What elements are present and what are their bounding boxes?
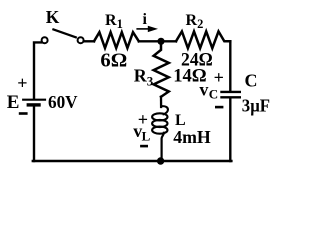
svg-text:+: +: [17, 73, 27, 93]
wire switch to R1: [84, 40, 94, 42]
svg-text:E: E: [7, 92, 20, 113]
svg-text:R2: R2: [186, 12, 204, 31]
wire left rail bottom: [33, 107, 35, 161]
svg-text:3μF: 3μF: [242, 96, 270, 116]
svg-text:6Ω: 6Ω: [100, 50, 127, 71]
switch K left contact: [42, 37, 48, 43]
wire right rail top: [229, 41, 231, 91]
node bottom junction: [157, 157, 164, 164]
svg-text:4mH: 4mH: [173, 127, 211, 147]
svg-text:60V: 60V: [48, 92, 78, 112]
wire right rail bottom: [229, 98, 231, 161]
wire bottom rail: [33, 160, 232, 162]
resistor R3: [154, 45, 169, 97]
svg-text:L: L: [142, 129, 151, 144]
switch K blade: [53, 29, 75, 37]
current arrow i: [136, 26, 158, 32]
resistor R2: [176, 31, 230, 48]
svg-text:C: C: [245, 71, 258, 91]
label vL minus: [140, 145, 148, 148]
capacitor C bottom plate: [220, 96, 241, 98]
battery E long plate: [22, 99, 46, 101]
label vC minus: [215, 106, 223, 109]
switch K right contact: [78, 37, 84, 43]
capacitor C top plate: [220, 91, 241, 93]
svg-text:+: +: [214, 67, 224, 87]
svg-text:v: v: [199, 80, 208, 100]
resistor R1: [94, 32, 139, 48]
svg-text:i: i: [143, 11, 148, 28]
battery minus: [19, 112, 28, 115]
svg-text:C: C: [209, 87, 218, 102]
svg-text:K: K: [46, 7, 60, 27]
svg-text:R1: R1: [105, 12, 123, 31]
battery E short plate: [27, 103, 41, 106]
node top junction: [157, 38, 164, 45]
inductor L coil: [152, 97, 168, 161]
wire left rail top: [34, 42, 41, 98]
svg-text:R3: R3: [134, 65, 154, 88]
wire R1 to node: [139, 40, 176, 42]
